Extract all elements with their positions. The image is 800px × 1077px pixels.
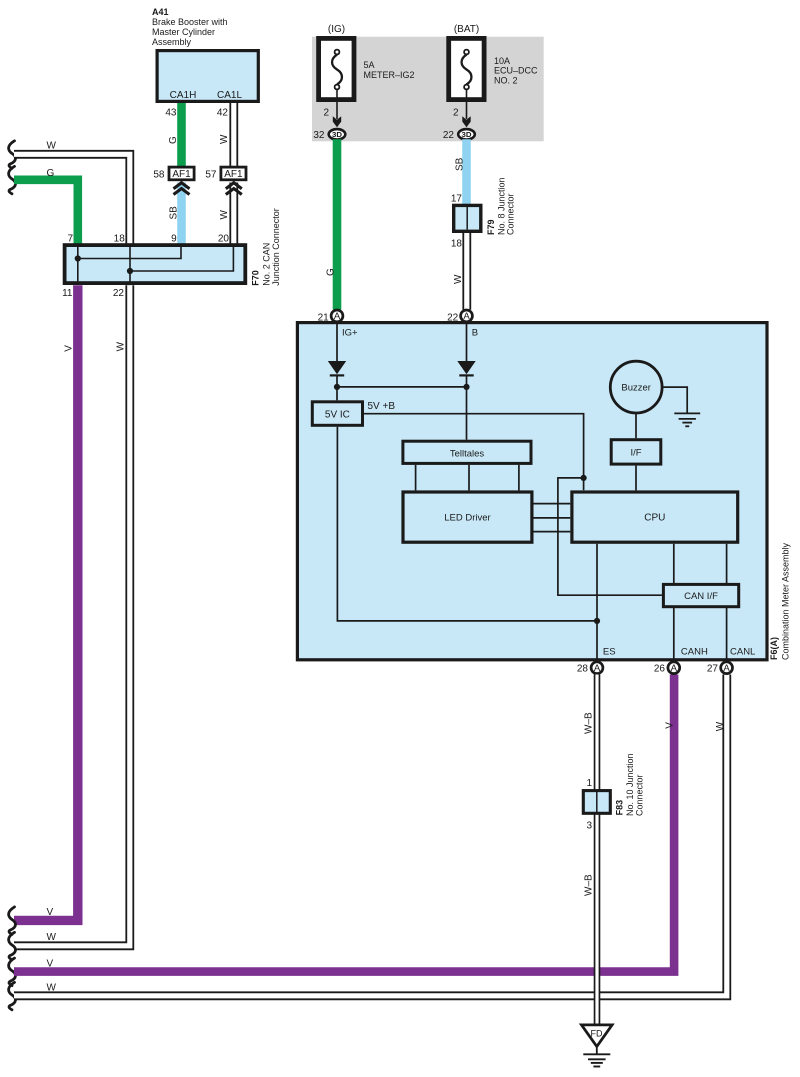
F70 No.2 CAN junction connector box [65,245,246,283]
svg-text:CA1L: CA1L [217,90,242,101]
squiggle G top-left [9,166,16,194]
fuse F1 5A METER-IG2 [319,38,354,99]
wire fuse1 to 3D [336,89,338,119]
svg-text:ECU–DCC: ECU–DCC [494,66,538,76]
telltales connector wires [416,465,519,491]
diode D1 [328,361,346,400]
svg-text:Master Cylinder: Master Cylinder [152,27,215,37]
wire W-B from meter pin 28 to FD ground [594,675,601,1024]
svg-text:(IG): (IG) [328,24,345,35]
CAN I/F box [663,584,738,606]
junction dot B [463,384,469,390]
squiggle W bottom [9,982,16,1010]
wire G from CA1H to AF1 [177,103,186,166]
wire V from F70 pin 11 to left edge [14,285,78,920]
svg-text:A41: A41 [152,7,169,17]
svg-text:V: V [47,958,54,969]
svg-text:CANL: CANL [730,647,755,658]
svg-text:42: 42 [217,107,229,118]
svg-text:METER–IG2: METER–IG2 [364,70,415,80]
svg-text:5V +B: 5V +B [368,401,396,412]
wire 5V IC to ES [337,427,597,621]
wire buzzer to ground [662,387,687,413]
connector AF1 no.58 [169,167,194,180]
junction dot IG+ [334,384,340,390]
svg-text:V: V [47,907,54,918]
I/F box [611,440,661,464]
svg-text:Assembly: Assembly [152,37,192,47]
junction dot F70 pin7 [75,255,81,261]
squiggle V bottom [9,958,16,986]
A41 component label [152,7,228,47]
svg-text:SB: SB [169,206,180,220]
svg-text:NO. 2: NO. 2 [494,75,518,85]
svg-text:57: 57 [205,170,217,181]
svg-text:No. 10 Junction: No. 10 Junction [625,753,635,816]
junction dot 5V+B [581,475,587,481]
svg-text:22: 22 [113,288,125,299]
connector oval 3D (IG) [329,129,346,139]
svg-text:W: W [219,210,230,220]
svg-text:CPU: CPU [644,512,665,523]
squiggle W left 2 [9,932,16,960]
svg-text:7: 7 [67,234,73,245]
CPU box [572,492,738,542]
wire SB from 3D to F79 [462,139,471,205]
svg-text:Connector: Connector [635,774,645,816]
svg-text:B: B [472,328,478,339]
svg-text:32: 32 [313,130,325,141]
svg-text:F70: F70 [250,270,260,286]
svg-text:Connector: Connector [506,193,516,235]
ground FD [582,1025,613,1067]
connector AF1 no.57 [221,167,246,180]
A41 brake booster box [157,51,258,102]
LED Driver box [403,492,532,542]
wire 5V +B [364,414,662,596]
pin circle 22 [461,310,473,322]
svg-text:10A: 10A [494,56,510,66]
svg-text:3: 3 [586,821,592,832]
fuse F2 10A ECU-DCC NO.2 [449,38,484,99]
svg-text:(BAT): (BAT) [454,24,479,35]
wire buzzer to I/F [635,413,637,438]
wire between diodes [337,386,467,388]
wire W from CA1L to AF1 [229,103,238,166]
connector arrow fuse2 [462,116,470,127]
svg-text:CANH: CANH [681,647,708,658]
wire V from left edge to meter pin 26 CANH [14,675,674,972]
svg-text:F6(A): F6(A) [769,637,779,660]
svg-text:W: W [116,341,127,351]
chevrons AF1 no.57 [226,183,242,195]
pin circle 26 [668,662,680,674]
wire I/F to CPU [635,466,637,491]
svg-text:V: V [664,722,675,729]
svg-text:1: 1 [586,778,592,789]
svg-text:A: A [334,311,341,322]
svg-text:18: 18 [114,234,126,245]
svg-text:LED Driver: LED Driver [444,512,490,523]
ground internal [674,413,700,426]
svg-text:27: 27 [707,664,719,675]
svg-text:W: W [453,274,464,284]
wire B internal [466,322,468,362]
svg-text:5V IC: 5V IC [325,409,350,420]
svg-text:AF1: AF1 [224,169,243,180]
svg-text:Brake Booster with: Brake Booster with [152,17,228,27]
svg-text:G: G [326,268,337,276]
squiggle W top-left [9,141,16,169]
svg-text:A: A [594,663,601,674]
svg-text:F79: F79 [486,219,496,235]
svg-text:F83: F83 [615,800,625,816]
pin circle 27 [721,662,733,674]
svg-text:G: G [47,168,55,179]
connector oval 3D (BAT) [458,129,475,139]
wire W from AF1 to F70 pin 20 [229,183,238,245]
F83 No.10 junction connector box [583,791,610,814]
svg-text:CA1H: CA1H [170,90,197,101]
svg-text:W: W [47,983,57,994]
wire CANH vertical [673,544,675,660]
bus wires LED Driver to CPU [534,504,571,532]
wire ES vertical [596,544,598,660]
svg-text:28: 28 [577,664,589,675]
diode D2 [457,361,475,440]
svg-text:9: 9 [171,234,177,245]
connector arrow fuse1 [333,116,341,127]
wire W from F79 to meter pin 22 [462,233,471,310]
wire W from left edge to meter pin 27 CANL [14,675,727,996]
svg-text:Telltales: Telltales [450,448,485,459]
svg-text:3D: 3D [332,130,343,139]
svg-text:Junction Connector: Junction Connector [271,208,281,286]
svg-text:W: W [47,932,57,943]
5V IC box [312,402,362,426]
svg-text:Combination Meter Assembly: Combination Meter Assembly [781,542,791,660]
pin circle 21 [331,310,343,322]
svg-text:26: 26 [654,664,666,675]
svg-text:FD: FD [591,1029,603,1039]
wire G from left edge to F70 pin 7 [14,180,78,244]
svg-text:A: A [671,663,678,674]
wire W from F70 pin 22 to left edge [14,285,130,946]
svg-text:W–B: W–B [583,874,594,896]
pin circle 28 [591,662,603,674]
svg-text:17: 17 [451,194,463,205]
buzzer circle [610,361,662,413]
wire fuse2 to 3D [466,89,468,119]
svg-text:AF1: AF1 [172,169,191,180]
F6(A) combination meter assembly box [297,323,767,660]
svg-text:43: 43 [165,107,177,118]
Telltales box [403,441,531,463]
svg-text:G: G [168,136,179,144]
chevrons AF1 no.58 [174,183,190,195]
svg-text:ES: ES [603,647,616,658]
svg-text:I/F: I/F [630,448,641,459]
svg-text:V: V [64,345,75,352]
svg-text:3D: 3D [462,130,473,139]
svg-text:11: 11 [62,288,73,299]
svg-text:W: W [47,141,57,152]
svg-text:IG+: IG+ [342,328,358,339]
gray power-source panel [312,37,544,142]
svg-text:A: A [463,311,470,322]
wire W from left edge to F70 pin 18 [14,154,130,244]
svg-text:21: 21 [318,312,330,323]
wire G from 3D to meter pin 21 [333,139,342,309]
squiggle V left [9,907,16,935]
svg-text:W: W [219,134,230,144]
svg-text:20: 20 [218,234,230,245]
svg-text:W–B: W–B [583,712,594,734]
svg-text:22: 22 [447,312,459,323]
svg-text:22: 22 [443,130,455,141]
svg-text:SB: SB [455,157,466,171]
junction dot F70 pin18 [127,268,133,274]
wire IG+ internal [336,322,338,362]
wire CANL vertical [726,544,728,660]
svg-text:W: W [715,721,726,731]
junction dot ES [594,618,600,624]
wire SB from AF1 to F70 pin 9 [177,183,186,245]
svg-text:Buzzer: Buzzer [621,382,651,393]
svg-text:A: A [723,663,730,674]
svg-text:No. 2 CAN: No. 2 CAN [261,243,271,286]
svg-text:18: 18 [451,239,463,250]
svg-text:CAN I/F: CAN I/F [684,591,718,602]
F79 No.8 junction connector box [454,205,481,231]
svg-text:5A: 5A [364,60,375,70]
svg-text:2: 2 [453,108,459,119]
svg-text:2: 2 [323,108,329,119]
svg-text:58: 58 [153,170,165,181]
